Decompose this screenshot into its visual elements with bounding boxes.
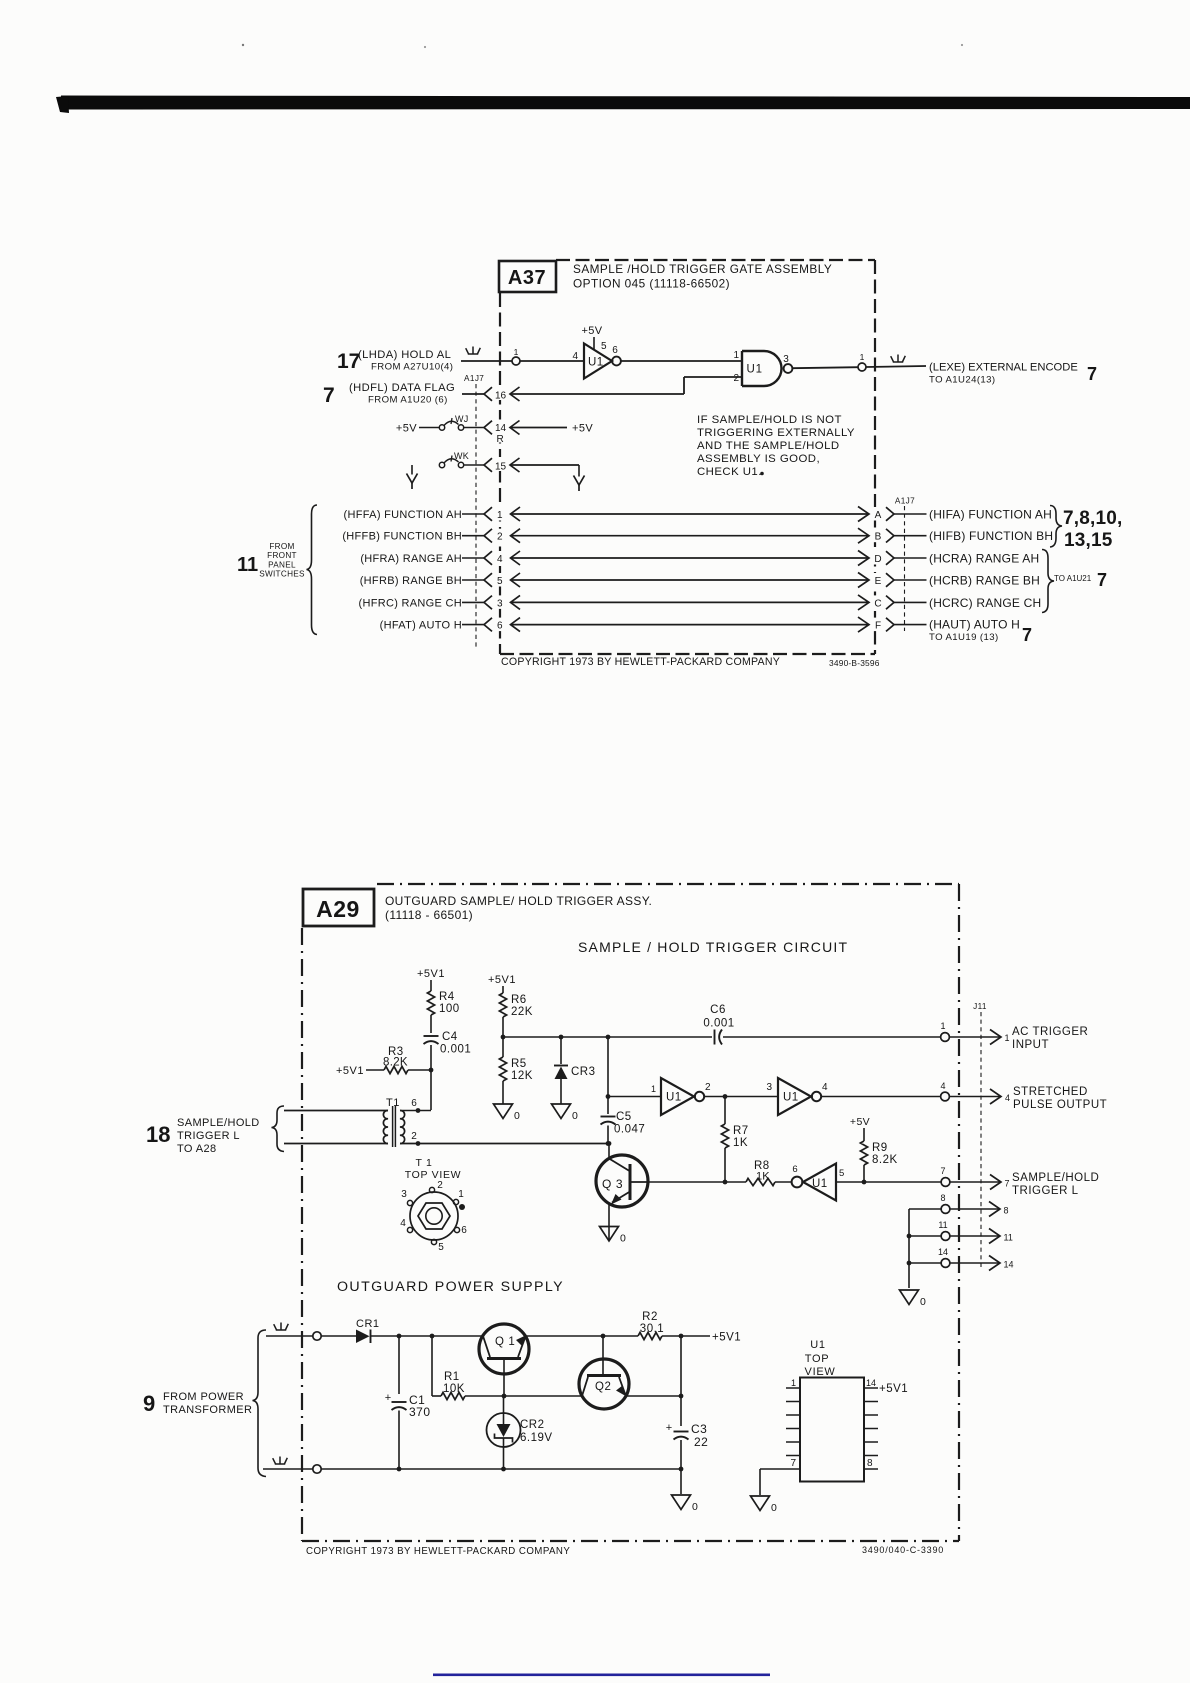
- A29 title box: [303, 889, 374, 926]
- NAND output bubble pin 3: [784, 364, 793, 373]
- svg-text:10K: 10K: [443, 1383, 465, 1395]
- zener diode CR2 6.19V: [503, 1396, 505, 1413]
- svg-text:TRIGGER L: TRIGGER L: [1012, 1185, 1079, 1197]
- svg-text:C3: C3: [691, 1422, 707, 1436]
- svg-text:D: D: [874, 554, 881, 565]
- svg-text:4: 4: [1005, 1093, 1010, 1103]
- transistor Q2: [579, 1359, 629, 1409]
- svg-text:(HDFL) DATA FLAG: (HDFL) DATA FLAG: [349, 382, 455, 394]
- svg-text:TO A28: TO A28: [177, 1143, 217, 1155]
- svg-text:4: 4: [497, 554, 503, 565]
- resistor R9 8.2K: [860, 1141, 867, 1165]
- AC trigger line: [503, 1036, 712, 1038]
- C3 branch vertical: [680, 1336, 682, 1426]
- svg-text:(HFAT) AUTO H: (HFAT) AUTO H: [380, 620, 462, 632]
- svg-text:CHECK U1.: CHECK U1.: [697, 466, 762, 478]
- svg-text:F: F: [875, 621, 881, 632]
- svg-text:5: 5: [497, 576, 503, 587]
- svg-text:R6: R6: [511, 994, 527, 1006]
- svg-text:+5V: +5V: [396, 423, 417, 435]
- svg-text:PANEL: PANEL: [268, 560, 296, 569]
- wire C4 bottom to T1 pin 6: [400, 1110, 431, 1112]
- inverter output bubble pin 6: [612, 357, 621, 366]
- svg-text:5: 5: [438, 1242, 444, 1253]
- brace for power input pair: [253, 1330, 267, 1477]
- svg-text:CR2: CR2: [520, 1419, 545, 1431]
- svg-text:11: 11: [938, 1220, 947, 1230]
- svg-text:7: 7: [323, 384, 335, 407]
- ground below CR3: [552, 1104, 571, 1119]
- svg-text:(HIFB) FUNCTION BH: (HIFB) FUNCTION BH: [929, 529, 1053, 543]
- inverter U1 pins 1-2: [661, 1078, 694, 1115]
- svg-text:12K: 12K: [511, 1070, 533, 1082]
- svg-text:(LEXE) EXTERNAL ENCODE: (LEXE) EXTERNAL ENCODE: [929, 362, 1078, 374]
- scan artifact: top black bar: [61, 96, 1190, 110]
- svg-text:8: 8: [1004, 1206, 1009, 1216]
- svg-text:6: 6: [612, 345, 618, 356]
- svg-text:0.001: 0.001: [703, 1018, 734, 1030]
- svg-text:1: 1: [497, 510, 503, 521]
- svg-text:1: 1: [1005, 1033, 1010, 1043]
- svg-text:(HFRC) RANGE CH: (HFRC) RANGE CH: [359, 597, 463, 609]
- svg-text:COPYRIGHT 1973 BY HEWLETT-PACK: COPYRIGHT 1973 BY HEWLETT-PACKARD COMPAN…: [306, 1546, 570, 1557]
- svg-text:1: 1: [651, 1084, 656, 1094]
- resistor R1 10K: [441, 1392, 465, 1399]
- svg-text:C5: C5: [616, 1111, 632, 1123]
- svg-text:TO A1U24(13): TO A1U24(13): [929, 375, 995, 386]
- svg-text:TOP VIEW: TOP VIEW: [405, 1169, 462, 1181]
- svg-text:AND THE SAMPLE/HOLD: AND THE SAMPLE/HOLD: [697, 440, 840, 452]
- svg-text:7: 7: [1097, 570, 1107, 590]
- chassis ground above HOLD AL wire: [468, 353, 478, 355]
- svg-text:A37: A37: [508, 267, 546, 289]
- svg-text:U1: U1: [812, 1178, 828, 1190]
- wire inverter2 to J11-4: [822, 1096, 941, 1098]
- svg-text:2: 2: [411, 1131, 417, 1142]
- svg-text:(HIFA) FUNCTION AH: (HIFA) FUNCTION AH: [929, 508, 1052, 522]
- svg-text:3: 3: [783, 354, 789, 365]
- svg-text:14: 14: [938, 1247, 948, 1257]
- svg-text:B: B: [875, 532, 882, 543]
- brace to A1U21: [1042, 550, 1054, 613]
- svg-text:Q 1: Q 1: [495, 1336, 515, 1348]
- NAND gate U1 (pins 1,2,3): [742, 351, 782, 386]
- svg-text:IF SAMPLE/HOLD IS NOT: IF SAMPLE/HOLD IS NOT: [697, 414, 842, 426]
- power input bottom wire: [275, 1463, 285, 1465]
- svg-text:R7: R7: [733, 1125, 749, 1137]
- svg-text:(HFRA) RANGE AH: (HFRA) RANGE AH: [360, 553, 462, 565]
- svg-text:SAMPLE / HOLD TRIGGER CIRCUIT: SAMPLE / HOLD TRIGGER CIRCUIT: [578, 939, 848, 955]
- svg-text:(HFFB) FUNCTION BH: (HFFB) FUNCTION BH: [342, 531, 462, 543]
- svg-text:22: 22: [694, 1435, 708, 1449]
- Q3 base row wire: [648, 1181, 746, 1183]
- svg-text:+5V: +5V: [581, 325, 602, 337]
- top rail Q1 to R2: [526, 1335, 638, 1337]
- svg-text:WJ: WJ: [455, 414, 469, 424]
- A29 assembly border (dashed): [377, 883, 959, 885]
- svg-text:0: 0: [771, 1502, 777, 1514]
- svg-text:+: +: [385, 1392, 391, 1404]
- svg-text:0: 0: [620, 1233, 626, 1245]
- Q2 base to +5V1 rail: [602, 1336, 604, 1375]
- svg-text:7: 7: [1087, 364, 1097, 384]
- svg-text:+5V1: +5V1: [879, 1383, 908, 1395]
- svg-text:U1: U1: [810, 1339, 825, 1351]
- svg-text:7: 7: [1022, 625, 1032, 645]
- svg-text:+5V1: +5V1: [488, 974, 516, 986]
- svg-text:A1J7: A1J7: [895, 497, 915, 506]
- svg-text:7,8,10,: 7,8,10,: [1063, 508, 1123, 529]
- svg-text:SAMPLE/HOLD: SAMPLE/HOLD: [1012, 1172, 1099, 1184]
- svg-text:7: 7: [940, 1166, 945, 1176]
- wire DATA FLAG row 16: [462, 393, 484, 395]
- svg-text:0: 0: [514, 1110, 520, 1122]
- Q3 emitter to ground: [608, 1204, 610, 1241]
- svg-text:6.19V: 6.19V: [520, 1432, 553, 1444]
- svg-text:9: 9: [143, 1391, 155, 1416]
- resistor R7 1K: [724, 1097, 726, 1125]
- capacitor C1 370 electrolytic: [398, 1336, 400, 1394]
- svg-text:6: 6: [461, 1225, 467, 1236]
- svg-text:COPYRIGHT 1973 BY HEWLETT-PACK: COPYRIGHT 1973 BY HEWLETT-PACKARD COMPAN…: [501, 656, 780, 668]
- svg-text:1: 1: [860, 352, 865, 362]
- A37 assembly border (dashed): [556, 259, 875, 261]
- T1 primary wires from A28: [284, 1110, 388, 1112]
- svg-text:5: 5: [839, 1168, 844, 1179]
- svg-text:(HAUT) AUTO H: (HAUT) AUTO H: [929, 618, 1020, 632]
- svg-text:6: 6: [497, 621, 503, 632]
- spare pins 8,11,14 bus: [908, 1209, 910, 1288]
- svg-text:FROM A27U10(4): FROM A27U10(4): [371, 362, 453, 373]
- Q1 base lead: [503, 1360, 505, 1396]
- svg-text:OPTION 045 (11118-66502): OPTION 045 (11118-66502): [573, 277, 730, 291]
- svg-text:SAMPLE/HOLD: SAMPLE/HOLD: [177, 1117, 260, 1129]
- svg-text:1: 1: [733, 350, 739, 361]
- svg-text:C: C: [874, 598, 881, 609]
- svg-text:0: 0: [692, 1501, 698, 1513]
- svg-text:SAMPLE /HOLD TRIGGER GATE ASSE: SAMPLE /HOLD TRIGGER GATE ASSEMBLY: [573, 262, 832, 276]
- ground below C3: [680, 1469, 682, 1494]
- svg-text:U1: U1: [666, 1092, 682, 1104]
- svg-text:STRETCHED: STRETCHED: [1013, 1086, 1088, 1098]
- svg-text:(HCRB) RANGE BH: (HCRB) RANGE BH: [929, 574, 1040, 588]
- svg-text:Q2: Q2: [595, 1381, 612, 1393]
- svg-text:3: 3: [497, 598, 503, 609]
- svg-text:11: 11: [237, 554, 258, 576]
- svg-text:TRANSFORMER: TRANSFORMER: [163, 1404, 252, 1416]
- wire HOLD AL into block: [461, 360, 512, 362]
- svg-text:2: 2: [497, 532, 503, 543]
- svg-text:2: 2: [437, 1180, 443, 1191]
- U1 pin 7 to ground: [760, 1468, 786, 1470]
- transistor Q1: [479, 1324, 529, 1374]
- svg-text:2: 2: [705, 1082, 711, 1093]
- svg-text:3: 3: [766, 1082, 772, 1093]
- R1 branch vertical: [431, 1336, 433, 1396]
- capacitor C5 0.047: [601, 1116, 616, 1118]
- svg-text:18: 18: [146, 1122, 170, 1147]
- junction R3/C4: [429, 1068, 434, 1073]
- svg-text:A1J7: A1J7: [464, 374, 484, 383]
- svg-text:7: 7: [790, 1458, 796, 1469]
- svg-text:16: 16: [495, 391, 507, 402]
- svg-text:VIEW: VIEW: [805, 1366, 836, 1378]
- svg-text:WK: WK: [454, 451, 469, 461]
- resistor R6 22K: [499, 993, 506, 1017]
- svg-text:8.2K: 8.2K: [383, 1057, 408, 1069]
- svg-text:C4: C4: [442, 1031, 458, 1043]
- svg-text:INPUT: INPUT: [1012, 1039, 1049, 1051]
- power input top wire: [276, 1329, 286, 1331]
- svg-text:6: 6: [411, 1098, 417, 1109]
- svg-text:8: 8: [867, 1458, 873, 1469]
- svg-text:FROM: FROM: [269, 542, 294, 551]
- svg-text:0: 0: [920, 1296, 926, 1308]
- svg-text:A: A: [875, 510, 882, 521]
- ground below R5: [494, 1104, 513, 1119]
- svg-text:8.2K: 8.2K: [872, 1154, 898, 1166]
- svg-text:TO A1U21: TO A1U21: [1054, 574, 1092, 583]
- svg-text:Q 3: Q 3: [602, 1177, 623, 1191]
- svg-text:6: 6: [792, 1164, 797, 1175]
- svg-text:TRIGGERING EXTERNALLY: TRIGGERING EXTERNALLY: [697, 427, 855, 439]
- svg-text:3: 3: [401, 1189, 407, 1200]
- svg-text:(11118 - 66501): (11118 - 66501): [385, 908, 473, 922]
- svg-text:(HCRA) RANGE AH: (HCRA) RANGE AH: [929, 552, 1039, 566]
- left brace from front panel switches: [307, 505, 318, 635]
- svg-text:22K: 22K: [511, 1006, 533, 1018]
- T1 pin 2 wire: [400, 1143, 609, 1145]
- svg-text:TRIGGER L: TRIGGER L: [177, 1130, 240, 1142]
- svg-text:R: R: [497, 434, 504, 445]
- svg-text:FROM POWER: FROM POWER: [163, 1391, 244, 1403]
- wire to inverter U1 input: [520, 360, 584, 362]
- svg-text:1K: 1K: [756, 1171, 770, 1183]
- svg-text:OUTGUARD SAMPLE/ HOLD TRIGGER: OUTGUARD SAMPLE/ HOLD TRIGGER ASSY.: [385, 894, 652, 908]
- scan specks: [242, 44, 244, 46]
- svg-text:370: 370: [409, 1405, 431, 1419]
- wire inverter1 to inverter2: [705, 1096, 779, 1098]
- Q2 emitter to C3 node: [626, 1395, 681, 1397]
- svg-text:E: E: [875, 576, 882, 587]
- svg-text:R4: R4: [439, 991, 455, 1003]
- svg-text:5: 5: [601, 341, 607, 352]
- svg-text:3490-B-3596: 3490-B-3596: [829, 658, 880, 668]
- svg-text:1K: 1K: [733, 1137, 748, 1149]
- left-facing inverter U1 pins 6-5: [792, 1177, 803, 1188]
- chassis ground on external encode wire: [893, 361, 903, 363]
- svg-text:4: 4: [400, 1218, 406, 1229]
- svg-text:PULSE OUTPUT: PULSE OUTPUT: [1013, 1099, 1107, 1111]
- spare pin J11-14: [909, 1262, 941, 1264]
- svg-text:+5V1: +5V1: [336, 1065, 364, 1077]
- svg-text:CR3: CR3: [571, 1066, 596, 1078]
- svg-text:0.001: 0.001: [440, 1044, 471, 1056]
- spare pin J11-8: [909, 1208, 941, 1210]
- terminal J11-4: [941, 1092, 950, 1101]
- svg-text:30.1: 30.1: [640, 1323, 664, 1335]
- svg-text:+: +: [666, 1422, 672, 1434]
- svg-text:1: 1: [791, 1378, 796, 1388]
- svg-text:ASSEMBLY IS GOOD,: ASSEMBLY IS GOOD,: [697, 453, 820, 465]
- svg-text:OUTGUARD POWER SUPPLY: OUTGUARD POWER SUPPLY: [337, 1279, 564, 1295]
- terminal pin 1 on border: [512, 357, 520, 365]
- svg-text:14: 14: [866, 1378, 876, 1388]
- svg-text:R9: R9: [872, 1142, 888, 1154]
- diode CR3: [559, 1035, 564, 1040]
- C5 branch vertical: [606, 1035, 611, 1040]
- svg-text:SWITCHES: SWITCHES: [259, 570, 305, 579]
- resistor R4 100: [427, 991, 434, 1015]
- terminal J11-7: [941, 1178, 950, 1187]
- svg-text:(LHDA) HOLD AL: (LHDA) HOLD AL: [358, 349, 451, 361]
- svg-text:11: 11: [1004, 1233, 1013, 1243]
- terminal J11-1: [941, 1033, 950, 1042]
- wire NAND output to border: [793, 367, 859, 368]
- transistor Q3: [607, 1141, 612, 1146]
- svg-text:TOP: TOP: [805, 1353, 830, 1365]
- bottom blue rule: [433, 1674, 770, 1677]
- A37 title box: [499, 261, 556, 292]
- svg-text:13,15: 13,15: [1064, 530, 1113, 551]
- brace for trigger pair: [272, 1106, 285, 1152]
- svg-text:0.047: 0.047: [614, 1124, 645, 1136]
- svg-text:TO A1U19 (13): TO A1U19 (13): [929, 632, 999, 643]
- svg-text:(HFFA) FUNCTION AH: (HFFA) FUNCTION AH: [344, 509, 462, 521]
- wire to inverter 1: [608, 1096, 661, 1098]
- svg-text:AC TRIGGER: AC TRIGGER: [1012, 1026, 1088, 1038]
- svg-text:1: 1: [514, 347, 519, 357]
- ground arrow right of WK row: [578, 465, 580, 477]
- svg-text:U1: U1: [747, 364, 763, 376]
- svg-text:+5V1: +5V1: [712, 1332, 741, 1344]
- svg-text:15: 15: [495, 462, 507, 473]
- svg-text:U1: U1: [783, 1092, 799, 1104]
- svg-text:R5: R5: [511, 1058, 527, 1070]
- svg-text:14: 14: [1004, 1260, 1014, 1270]
- svg-text:A29: A29: [316, 896, 360, 922]
- resistor R3 8.2K: [384, 1066, 408, 1073]
- svg-text:(HCRC) RANGE CH: (HCRC) RANGE CH: [929, 596, 1041, 610]
- svg-text:T 1: T 1: [415, 1157, 432, 1169]
- svg-text:+5V1: +5V1: [417, 968, 445, 980]
- svg-text:+5V: +5V: [850, 1116, 870, 1128]
- svg-text:(HFRB) RANGE BH: (HFRB) RANGE BH: [360, 575, 462, 587]
- ground below spare bus: [900, 1290, 919, 1305]
- svg-text:4: 4: [940, 1081, 945, 1091]
- svg-text:R1: R1: [444, 1371, 460, 1383]
- svg-text:3490/040-C-3390: 3490/040-C-3390: [862, 1545, 944, 1555]
- svg-text:1: 1: [940, 1021, 945, 1031]
- svg-text:100: 100: [439, 1003, 460, 1015]
- svg-text:U1: U1: [588, 357, 604, 369]
- spare pin J11-11: [909, 1235, 941, 1237]
- svg-text:1: 1: [458, 1189, 464, 1200]
- junction R6/AC line: [501, 1035, 506, 1040]
- svg-text:FROM A1U20 (6): FROM A1U20 (6): [368, 395, 448, 406]
- svg-text:7: 7: [1005, 1179, 1010, 1189]
- svg-text:CR1: CR1: [356, 1318, 380, 1330]
- svg-text:R2: R2: [642, 1311, 658, 1323]
- svg-text:14: 14: [495, 423, 507, 434]
- junction inverter tap: [606, 1094, 611, 1099]
- switch WK row: ground: [407, 474, 418, 484]
- wire inverter to NAND pin 1: [621, 360, 742, 362]
- capacitor C4 0.001: [424, 1035, 439, 1037]
- svg-text:2: 2: [733, 373, 739, 384]
- svg-text:17: 17: [337, 350, 360, 373]
- svg-text:8: 8: [940, 1193, 945, 1203]
- inverter U1 pins 3-4: [778, 1078, 811, 1115]
- svg-text:J11: J11: [973, 1002, 987, 1011]
- svg-text:+5V: +5V: [572, 423, 593, 435]
- ground below Q3: [600, 1227, 619, 1242]
- svg-text:4: 4: [822, 1082, 828, 1093]
- brace to 7,8,10,13,15: [1050, 506, 1062, 548]
- resistor R5 12K: [502, 1037, 504, 1057]
- T1 core: [392, 1106, 394, 1147]
- svg-text:C6: C6: [710, 1004, 726, 1016]
- svg-text:FRONT: FRONT: [267, 551, 297, 560]
- svg-text:4: 4: [572, 351, 578, 362]
- svg-text:0: 0: [572, 1110, 578, 1122]
- resistor R8 1K: [746, 1178, 775, 1185]
